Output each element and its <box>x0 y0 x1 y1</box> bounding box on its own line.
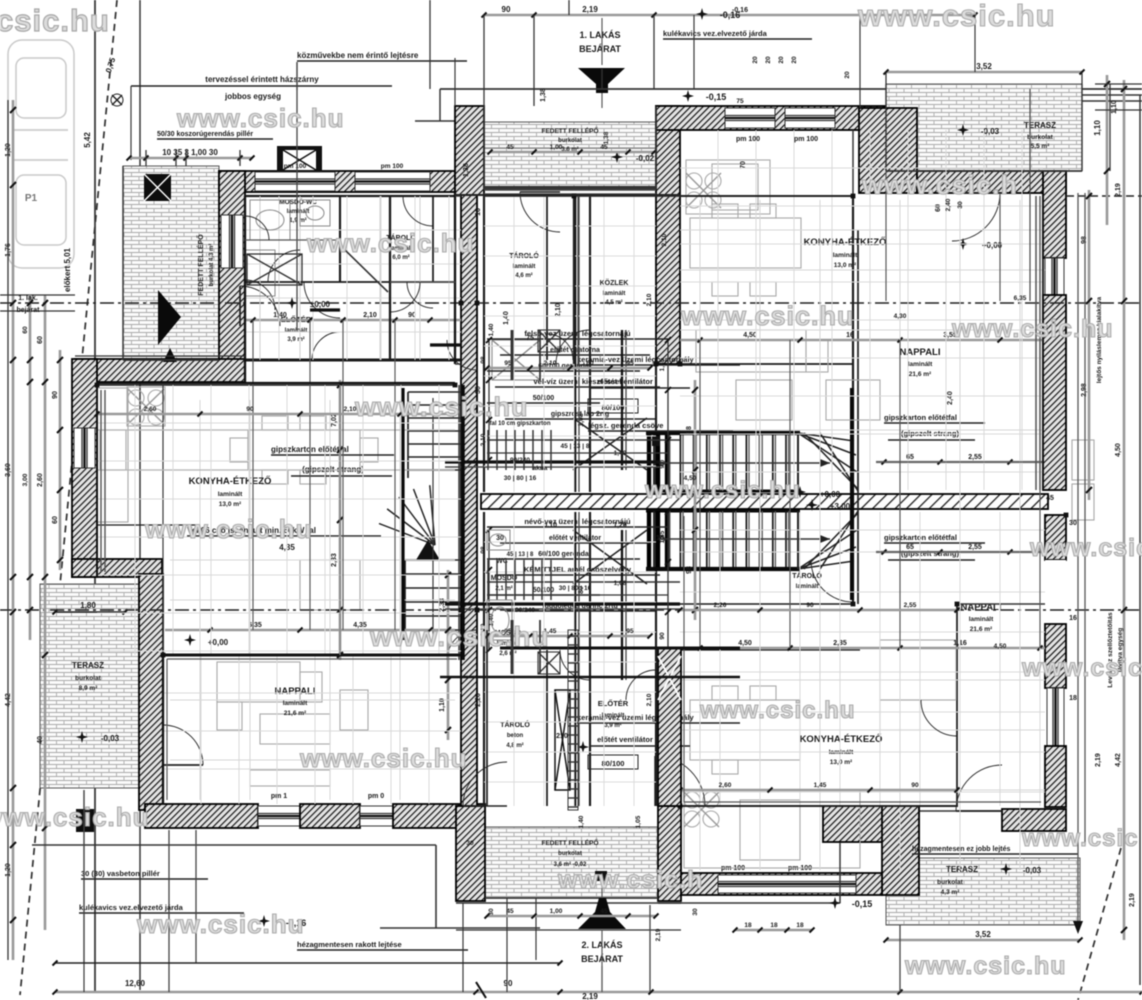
svg-text:névő-vez üzemi légcsatornájú: névő-vez üzemi légcsatornájú <box>524 517 631 526</box>
axis line left <box>0 302 1142 304</box>
svg-text:www.csic.hu: www.csic.hu <box>904 952 1067 980</box>
floor grid center <box>484 196 656 492</box>
wall unit1 bottom c <box>393 804 485 828</box>
svg-text:www.csic.hu: www.csic.hu <box>857 0 1056 33</box>
marker +000 c <box>957 238 1003 250</box>
svg-text:20: 20 <box>778 56 785 64</box>
marker bottom +015 <box>829 897 872 909</box>
svg-text:www.csic.hu: www.csic.hu <box>680 301 855 331</box>
int wall konyha2 <box>680 196 853 604</box>
top left guide lines <box>131 58 455 160</box>
svg-text:1,00: 1,00 <box>550 908 563 915</box>
tv unit1 <box>250 770 330 786</box>
svg-text:2,1 m²: 2,1 m² <box>495 585 512 592</box>
svg-text:1,08: 1,08 <box>614 580 627 587</box>
ticks top left row <box>127 150 255 166</box>
svg-text:60: 60 <box>52 516 59 524</box>
top extra vline <box>694 15 975 108</box>
svg-text:95: 95 <box>626 628 634 635</box>
watermark o <box>136 909 305 939</box>
svg-text:1,45: 1,45 <box>814 782 827 789</box>
svg-text:60: 60 <box>935 204 942 212</box>
svg-text:ELŐTÉR: ELŐTÉR <box>598 699 629 708</box>
terrace top-right label <box>0 0 1 1</box>
anno gipszkarton2 <box>884 413 985 440</box>
staircase unit1 <box>379 385 461 640</box>
svg-text:2,19: 2,19 <box>582 992 598 1000</box>
covered porch top-left bricks <box>123 166 219 360</box>
svg-text:2,60: 2,60 <box>719 782 732 789</box>
window top wall unit2 b <box>785 108 835 128</box>
room label konyha3 <box>800 733 883 766</box>
marker -0,15 <box>682 90 726 102</box>
door porch top <box>520 192 560 232</box>
svg-text:2,60: 2,60 <box>37 473 44 487</box>
wall konyha bottom <box>680 873 882 895</box>
int wall room divider top <box>340 196 433 360</box>
window top wall b <box>355 163 430 191</box>
svg-text:±0,00: ±0,00 <box>310 300 331 309</box>
window band konyha <box>718 865 856 893</box>
wall unit1 left mid <box>72 359 97 577</box>
porch top-left label <box>196 234 215 296</box>
svg-text:2,10: 2,10 <box>646 693 653 706</box>
inner face lines nappali2 <box>684 516 1041 802</box>
svg-text:-0,03: -0,03 <box>1023 866 1042 875</box>
watermark i <box>1029 534 1142 562</box>
svg-text:98: 98 <box>686 566 693 574</box>
terrace bottom-right label <box>937 863 1041 896</box>
svg-text:1,00: 1,00 <box>550 144 563 151</box>
misc line porch2 base <box>456 929 681 931</box>
svg-text:12,60: 12,60 <box>125 979 146 988</box>
svg-text:4,8 m²: 4,8 m² <box>506 742 523 749</box>
svg-text:80/100: 80/100 <box>602 759 625 768</box>
top guide line 2 <box>440 89 1142 121</box>
wall right upper b <box>1043 295 1066 490</box>
wall right lower a <box>1045 624 1066 688</box>
unit2 entrance label <box>581 940 623 964</box>
watermark n <box>0 802 150 832</box>
grid light v2 <box>200 400 400 800</box>
porch bottom label <box>541 838 598 868</box>
svg-text:NAPPALI: NAPPALI <box>900 347 941 358</box>
svg-text:90/240: 90/240 <box>510 457 530 464</box>
svg-text:16: 16 <box>1069 615 1077 622</box>
watermark p <box>557 866 703 894</box>
svg-text:pm 100: pm 100 <box>736 136 760 143</box>
svg-text:laminált: laminált <box>908 361 933 368</box>
cabinet center top <box>492 340 540 380</box>
corridor vtick chain 2 <box>480 527 492 653</box>
wall under terrace <box>917 171 1066 193</box>
unit1 entrance triangle <box>578 68 625 93</box>
anno keramia2 <box>577 713 740 746</box>
kitchen unit2 counter <box>686 160 770 214</box>
svg-text:FEDETT FELLÉPŐ: FEDETT FELLÉPŐ <box>541 838 598 847</box>
watermark d <box>680 301 855 331</box>
room label elter1 <box>281 315 312 343</box>
svg-text:www.csic.hu: www.csic.hu <box>299 743 468 773</box>
terrace top-right dim <box>884 62 1085 84</box>
dining table unit2 <box>690 204 801 296</box>
left rooms extra <box>245 216 455 308</box>
svg-text:1,10: 1,10 <box>1111 100 1118 114</box>
svg-text:4,50: 4,50 <box>743 332 757 339</box>
svg-text:TERASZ: TERASZ <box>946 865 978 874</box>
boundary dashed bottom right <box>1078 848 1121 1000</box>
door elotér <box>240 286 280 326</box>
svg-text:45: 45 <box>600 908 608 915</box>
small black sq2 <box>652 436 660 446</box>
svg-text:MOSDÓ-WC: MOSDÓ-WC <box>279 197 317 206</box>
int vdim center <box>686 380 698 620</box>
watermark k <box>299 743 468 773</box>
svg-text:90: 90 <box>504 979 513 988</box>
lining left wall konyha1 <box>101 390 105 572</box>
ticks row mid1 <box>95 406 458 417</box>
grid light v <box>170 196 455 760</box>
svg-text:www.csic.hu: www.csic.hu <box>1029 534 1142 562</box>
svg-text:www.csic.hu: www.csic.hu <box>136 909 305 939</box>
party wall lower segment <box>658 648 681 806</box>
left dim line 2 <box>37 295 48 930</box>
kitchen unit2 hob <box>686 173 721 208</box>
svg-text:18: 18 <box>770 922 778 929</box>
svg-text:2,10: 2,10 <box>544 360 557 367</box>
watermark b <box>306 228 475 258</box>
svg-text:1,80: 1,80 <box>80 601 96 610</box>
party wall central <box>461 195 477 806</box>
svg-text:KONYHA-ÉTKEZŐ: KONYHA-ÉTKEZŐ <box>800 733 883 745</box>
property line 2 <box>139 0 141 990</box>
room label taro3 <box>500 720 530 749</box>
int vdim left <box>331 380 343 660</box>
svg-text:45 | 13 | 8: 45 | 13 | 8 <box>561 443 590 450</box>
right rotated text 2 <box>1107 612 1124 688</box>
chimney top <box>277 146 322 174</box>
svg-text:30 | 80 | 16: 30 | 80 | 16 <box>559 585 592 592</box>
room label konyha1 <box>189 475 272 508</box>
terrace top-right marker <box>957 124 1000 136</box>
right dim line 2 <box>1115 80 1127 940</box>
wall unit1 bottom a <box>145 804 258 828</box>
svg-text:4,50: 4,50 <box>994 643 1007 650</box>
room label kozlek2 <box>600 278 629 306</box>
eloter dark bits <box>310 250 462 345</box>
int wall h2 kitchen <box>97 385 455 525</box>
left dim line 3 <box>52 350 63 570</box>
misc line left porch <box>123 166 219 360</box>
staircase central <box>646 230 858 604</box>
watermark f <box>354 392 529 422</box>
svg-text:-0,03: -0,03 <box>101 734 120 743</box>
svg-text:előtét ventilátor: előtét ventilátor <box>597 735 653 744</box>
label kulekavics jarda top <box>663 29 812 39</box>
watermark h <box>644 477 800 504</box>
svg-text:60: 60 <box>22 326 29 334</box>
left edge long vline <box>7 100 9 960</box>
wall right mid <box>1045 515 1066 560</box>
svg-text:20: 20 <box>844 71 851 79</box>
svg-text:8,9 m²: 8,9 m² <box>79 685 99 692</box>
right rotated text 1 <box>1096 296 1103 383</box>
svg-text:16: 16 <box>475 208 482 216</box>
watermark l <box>699 697 855 724</box>
left edge axis labels <box>17 295 41 314</box>
right dim line 1 <box>1093 75 1110 225</box>
svg-text:60: 60 <box>586 360 594 367</box>
terrace top-right bricks <box>886 84 1082 171</box>
svg-text:-0,02: -0,02 <box>636 154 655 163</box>
stair1 rails <box>403 385 463 660</box>
int lines nappali2 <box>853 130 1045 604</box>
sofa unit2b <box>880 640 956 730</box>
heavy room lines center <box>440 630 740 806</box>
clutter text c2 <box>507 552 627 614</box>
room edge line t <box>574 196 578 364</box>
clutter v labels <box>488 293 653 706</box>
room label konyha2 <box>804 236 887 269</box>
svg-text:2,19: 2,19 <box>1115 183 1122 197</box>
svg-text:5,5 m²: 5,5 m² <box>1031 143 1051 150</box>
svg-text:KONYHA-ÉTKEZŐ: KONYHA-ÉTKEZŐ <box>804 236 887 248</box>
svg-text:laminált: laminált <box>603 291 626 297</box>
ext lines v right <box>700 340 1040 648</box>
room label taro1 <box>386 233 416 261</box>
elev line konyha1 <box>97 430 455 470</box>
svg-text:1,38: 1,38 <box>463 163 470 177</box>
left dim line 1 <box>10 100 16 960</box>
svg-text:laminált: laminált <box>283 700 308 707</box>
anno kulekavics2 <box>79 903 244 913</box>
svg-text:laminált: laminált <box>969 616 994 623</box>
entrance center vlines <box>601 18 603 992</box>
sofa unit1 <box>217 662 368 744</box>
svg-text:95: 95 <box>626 360 634 367</box>
svg-text:burkolat: burkolat <box>75 675 101 682</box>
svg-text:90: 90 <box>806 602 814 609</box>
door center1 <box>447 340 477 370</box>
inner face lines nappali1 <box>167 659 457 800</box>
svg-text:30: 30 <box>496 535 504 542</box>
int dim row 3 <box>680 640 1045 651</box>
bottom right rot text <box>1095 753 1136 907</box>
svg-text:akna: akna <box>533 465 548 472</box>
svg-text:hézagmentesen rakott lejtése: hézagmentesen rakott lejtése <box>297 940 402 949</box>
svg-text:-0,16: -0,16 <box>732 7 748 14</box>
tick rows porch2 <box>485 908 659 919</box>
small black sq1 <box>595 871 607 881</box>
window left wall konyha <box>74 428 95 468</box>
svg-text:30: 30 <box>1069 520 1077 527</box>
svg-text:beton: beton <box>507 733 524 739</box>
svg-text:6,35: 6,35 <box>1014 295 1027 302</box>
svg-text:közművekbe nem érintő lejtésre: közművekbe nem érintő lejtésre <box>297 51 419 60</box>
bottom ext lines <box>84 790 602 992</box>
anno gipszkarton1 <box>271 445 394 476</box>
window pm0 <box>360 806 393 826</box>
corridor extra rows <box>487 330 668 674</box>
svg-text:20: 20 <box>765 56 772 64</box>
svg-text:2,60: 2,60 <box>144 406 157 413</box>
svg-text:3,52: 3,52 <box>975 930 991 939</box>
svg-text:13,0 m²: 13,0 m² <box>830 759 853 766</box>
sofa unit2 <box>696 330 880 420</box>
room label taro4 <box>792 571 822 590</box>
svg-text:www.csic.hu: www.csic.hu <box>354 392 529 422</box>
terrace top-right text <box>1024 121 1056 150</box>
unit2 entrance triangle <box>578 898 626 929</box>
ext lines v left <box>253 320 395 630</box>
door konyha2 <box>811 560 853 602</box>
wall right lower b <box>1045 746 1066 807</box>
thick inner faces <box>97 192 1043 577</box>
window top wall unit2 a <box>725 108 775 128</box>
svg-text:65: 65 <box>906 544 914 551</box>
right small dims <box>1046 495 1077 702</box>
door gap bottom right <box>914 810 1002 812</box>
svg-text:2,10: 2,10 <box>363 312 377 319</box>
watermark top right <box>857 0 1056 33</box>
door nappali2b <box>921 700 957 736</box>
porch pillar top <box>455 106 484 195</box>
anno vizm <box>187 526 381 552</box>
svg-text:BEJÁRAT: BEJÁRAT <box>579 44 621 54</box>
misc line right terr <box>886 84 1082 171</box>
porch sill band <box>484 188 656 194</box>
svg-text:2,55: 2,55 <box>968 544 982 551</box>
svg-text:csic.hu: csic.hu <box>0 3 110 38</box>
door arc center top <box>547 330 590 364</box>
svg-text:210: 210 <box>556 733 568 740</box>
guide v line 430 <box>430 0 602 89</box>
terrace bottom-left marker <box>76 731 120 743</box>
stair cross brace <box>573 418 647 584</box>
svg-text:pm 100: pm 100 <box>794 136 818 143</box>
pillar bottomleft black <box>76 809 94 832</box>
floor band central hatched <box>481 494 1048 509</box>
svg-text:2,19: 2,19 <box>1129 893 1136 907</box>
svg-text:1. LAKÁS: 1. LAKÁS <box>579 30 620 40</box>
watermark g <box>144 514 313 544</box>
svg-text:pm 100: pm 100 <box>381 163 404 170</box>
svg-text:21,6 m²: 21,6 m² <box>284 710 307 717</box>
svg-text:gipszrost lap 2rtg: gipszrost lap 2rtg <box>551 411 609 418</box>
property line 1 <box>94 0 96 993</box>
svg-text:2,26: 2,26 <box>714 602 727 609</box>
svg-text:tervezéssel érintett házszárny: tervezéssel érintett házszárny <box>205 75 319 84</box>
watermark a <box>176 103 345 133</box>
svg-text:FEDETT FELLÉPŐ: FEDETT FELLÉPŐ <box>196 234 205 296</box>
svg-text:45 | 13 | 8: 45 | 13 | 8 <box>507 552 534 558</box>
anno 80100b <box>588 755 638 769</box>
wall unit1 jog <box>75 359 245 382</box>
guide v line top <box>484 15 654 106</box>
svg-text:1,85: 1,85 <box>659 358 666 371</box>
bath fixtures <box>245 200 330 296</box>
door arc int1 <box>304 282 420 318</box>
floor grid konyha2 <box>680 130 1043 490</box>
svg-text:TÁROLÓ: TÁROLÓ <box>500 720 530 729</box>
svg-text:30: 30 <box>692 908 699 916</box>
svg-text:13,0 m²: 13,0 m² <box>219 501 242 508</box>
svg-text:laminált: laminált <box>285 328 308 334</box>
int wall v center-left rooms <box>484 196 656 492</box>
marker +000 a <box>184 634 229 647</box>
svg-text:30 | 80 | 16: 30 | 80 | 16 <box>504 475 537 482</box>
marker -002 b <box>611 151 655 163</box>
door porch2 b <box>655 756 705 806</box>
svg-text:www.csic: www.csic <box>1021 654 1142 682</box>
wall unit2 top <box>656 106 885 130</box>
anno dims top <box>129 148 249 158</box>
svg-text:1,40: 1,40 <box>578 815 585 828</box>
window pm1 <box>258 806 300 826</box>
leader line 5030 <box>296 62 298 330</box>
watermark m <box>1021 654 1142 682</box>
window top wall a <box>255 163 335 191</box>
svg-text:laminált: laminált <box>796 584 819 590</box>
marker +000 e <box>556 733 589 753</box>
door right gap <box>1045 560 1066 624</box>
right ext lines <box>1073 193 1085 934</box>
kitchen unit1 counter <box>97 388 128 522</box>
crossed box eloter <box>247 254 302 285</box>
svg-text:1,85: 1,85 <box>659 530 666 543</box>
unit1 entrance label <box>579 30 621 54</box>
arcs upper left <box>245 250 340 360</box>
marker +300 f <box>806 499 851 511</box>
svg-text:www.csic.hu: www.csic.hu <box>144 514 313 544</box>
int wall nappali2 <box>680 604 957 806</box>
wall top-right corner <box>859 108 917 193</box>
top right corner dims <box>1095 84 1142 171</box>
int wall h1 <box>245 196 461 360</box>
svg-text:2,10: 2,10 <box>480 433 487 446</box>
room edge bottom2 <box>680 805 958 807</box>
kitchen unit1 hob <box>127 387 165 426</box>
svg-text:20: 20 <box>752 56 759 64</box>
window labels bottom <box>271 793 384 800</box>
wall unit1 bottom b <box>300 804 360 828</box>
terrace bottom-right dim <box>884 930 1083 943</box>
svg-text:TERASZ: TERASZ <box>1024 121 1056 130</box>
svg-text:www.csic.hu: www.csic.hu <box>951 315 1114 343</box>
terrace bottom-left label <box>72 661 104 692</box>
kitchen unit2b counter <box>684 790 860 868</box>
wall right upper a <box>1043 171 1066 258</box>
floor grid nappali1 <box>163 655 461 804</box>
svg-text:www.csic.h: www.csic.h <box>557 866 703 894</box>
svg-text:www.csic.hu: www.csic.hu <box>176 103 345 133</box>
svg-text:www.csic.hu: www.csic.hu <box>306 228 475 258</box>
corridor vtick chain 4 <box>659 509 671 663</box>
door terasz right <box>956 765 1002 811</box>
room outline nappali1 <box>163 655 461 804</box>
svg-text:2,19: 2,19 <box>655 928 662 941</box>
svg-text:4,6 m²: 4,6 m² <box>515 272 532 279</box>
svg-text:45: 45 <box>506 144 514 151</box>
svg-text:2,10: 2,10 <box>646 293 653 306</box>
int dim elotr <box>503 303 562 342</box>
porch2 outline <box>456 898 681 903</box>
svg-text:bejárat: bejárat <box>17 307 41 314</box>
int wall center lower <box>484 512 656 806</box>
svg-text:60/100 gerenda: 60/100 gerenda <box>538 551 589 558</box>
svg-text:18: 18 <box>744 922 752 929</box>
tick rows top <box>488 144 657 155</box>
